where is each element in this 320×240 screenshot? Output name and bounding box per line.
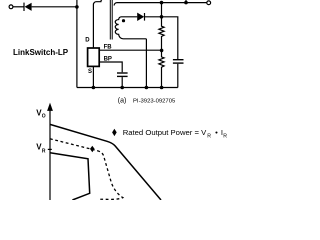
svg-text:PI-3923-092705: PI-3923-092705 xyxy=(133,99,176,105)
wire bottom return rail xyxy=(77,87,178,89)
wire secondary return xyxy=(145,39,147,88)
svg-text:LinkSwitch-LP: LinkSwitch-LP xyxy=(13,48,69,57)
op-amp U1 LinkSwitch-LP IC body xyxy=(88,48,100,66)
wire diode node to output cap xyxy=(162,17,178,59)
wire left bus vertical xyxy=(76,0,78,88)
resistor R2 xyxy=(159,50,164,87)
capacitor C-BP xyxy=(117,73,128,76)
input terminal xyxy=(9,5,13,9)
svg-text:Rated Output Power = V: Rated Output Power = V xyxy=(123,128,207,137)
marker rated point diamond xyxy=(90,146,95,153)
svg-text:•: • xyxy=(215,128,218,137)
node secondary-rail junction xyxy=(145,86,149,90)
node input-rail junction xyxy=(75,5,79,9)
diode D1 clamp xyxy=(24,3,77,11)
diode D2 output rectifier xyxy=(137,13,161,21)
wire output cap to rail xyxy=(177,64,179,88)
svg-text:R: R xyxy=(42,148,46,154)
node BP-rail junction xyxy=(120,86,124,90)
wire xyxy=(13,6,24,8)
capacitor C-OUT xyxy=(173,60,184,63)
wire stub up xyxy=(185,0,187,3)
tick VR xyxy=(48,148,52,150)
transformer T1 secondary winding xyxy=(115,17,146,39)
svg-text:R: R xyxy=(223,133,227,139)
svg-text:FB: FB xyxy=(104,45,113,51)
output terminal xyxy=(207,1,211,5)
svg-text:O: O xyxy=(42,114,46,120)
node rail-diode junction xyxy=(160,1,164,5)
curve minimum envelope solid xyxy=(50,153,90,200)
svg-text:D: D xyxy=(85,38,90,44)
wire top output rail xyxy=(114,3,207,6)
node diode output junction xyxy=(160,15,164,19)
node rail upper stub junction xyxy=(184,1,188,5)
transformer T1 core xyxy=(110,0,112,40)
svg-text:BP: BP xyxy=(104,57,112,63)
svg-text:(a): (a) xyxy=(118,98,127,105)
resistor R1 xyxy=(159,17,164,51)
wire FB pin xyxy=(99,49,161,51)
curve typical dashed xyxy=(50,139,123,200)
y-axis xyxy=(49,107,51,200)
node R2-rail junction xyxy=(160,86,164,90)
node FB divider junction xyxy=(160,49,164,53)
curve maximum envelope solid xyxy=(50,124,161,200)
svg-text:S: S xyxy=(88,69,92,75)
wire D pin to primary xyxy=(93,0,104,48)
legend diamond xyxy=(112,129,117,136)
wire BP pin xyxy=(99,62,122,72)
svg-text:R: R xyxy=(207,133,211,139)
wire diode node up to top rail xyxy=(161,3,163,17)
node polarity dot xyxy=(122,19,125,22)
y-axis arrowhead xyxy=(47,103,53,111)
wire BP cap to rail xyxy=(121,77,123,87)
node S-rail junction xyxy=(92,86,96,90)
wire S pin xyxy=(92,67,94,88)
